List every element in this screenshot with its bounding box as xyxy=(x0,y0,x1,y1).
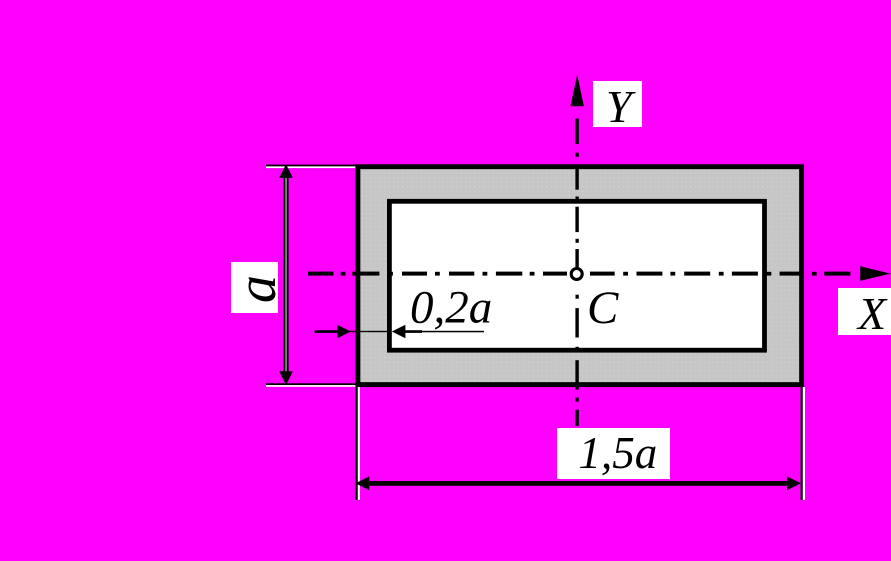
svg-text:X: X xyxy=(856,288,888,339)
inner hole rectangle (white) xyxy=(389,201,764,350)
label box X xyxy=(838,288,891,335)
dimension a: upper arrowhead xyxy=(279,164,293,178)
dimension 0,2a: left-pointing arrowhead and right shaft with leader xyxy=(392,325,484,339)
svg-text:a: a xyxy=(226,275,288,303)
X axis dash-dot centerline xyxy=(308,272,850,276)
dimension a: vertical dimension line (double stroke) xyxy=(284,170,289,378)
label box 1,5a xyxy=(557,428,670,479)
dimension 1,5a: right arrowhead xyxy=(787,476,801,490)
dimension 1,5a: left arrowhead xyxy=(355,476,369,490)
dimension 0,2a: thin line across wall xyxy=(356,331,389,332)
Y axis arrowhead xyxy=(571,75,584,107)
svg-text:0,2a: 0,2a xyxy=(410,281,492,333)
extension line top of dimension a xyxy=(266,165,357,168)
centroid marker circle C xyxy=(571,269,582,280)
X axis arrowhead xyxy=(860,266,890,281)
extension line bottom of dimension a xyxy=(266,383,356,387)
extension line left of dimension 1,5a xyxy=(356,387,360,500)
svg-text:Y: Y xyxy=(606,81,636,132)
extension line right of dimension 1,5a xyxy=(801,387,805,500)
label box Y xyxy=(593,81,642,127)
svg-text:1,5a: 1,5a xyxy=(579,428,658,478)
Y axis dash-dot centerline xyxy=(575,119,578,426)
dimension 1,5a: horizontal dimension line xyxy=(366,481,796,486)
label box a xyxy=(231,262,278,313)
svg-text:C: C xyxy=(587,282,619,334)
dimension a: lower arrowhead xyxy=(279,371,293,385)
outer tube wall rectangle (gray section) xyxy=(358,167,802,385)
dimension 0,2a: left shaft and right-pointing arrowhead xyxy=(315,325,356,339)
